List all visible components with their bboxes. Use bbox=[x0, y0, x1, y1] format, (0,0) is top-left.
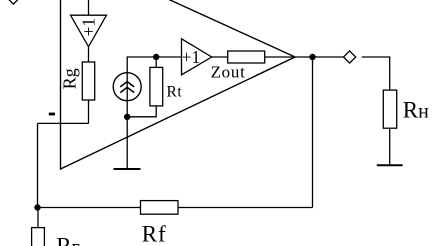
wire (current source bottom) bbox=[126, 101, 128, 117]
wire (RH bottom to ground) bbox=[389, 128, 391, 165]
ground G1 bbox=[114, 168, 141, 170]
resistor Rr (source resistor, cut off at bottom) bbox=[32, 228, 45, 246]
wire (U2 output to Rg top) bbox=[88, 47, 90, 62]
resistor Rf bbox=[141, 201, 179, 215]
wire (feedback vertical from node C) bbox=[312, 57, 314, 208]
wire (buffer U2 input, from top edge) bbox=[88, 0, 90, 15]
wire (left feedback bus down) bbox=[37, 123, 39, 207]
resistor Rt bbox=[150, 67, 163, 106]
node A (top of Rt) bbox=[153, 54, 159, 60]
op-amp U2 (+1 buffer, pointing down) bbox=[71, 15, 107, 47]
resistor Rg bbox=[82, 62, 94, 100]
op-amp U3 (+1 buffer, pointing right) bbox=[182, 39, 212, 75]
wire (to RH) bbox=[362, 57, 390, 90]
resistor RH bbox=[383, 90, 396, 128]
wire (U3 output to Zout) bbox=[212, 56, 228, 58]
node C (output node) bbox=[309, 54, 315, 60]
svg-text:+1: +1 bbox=[78, 18, 98, 37]
wire (node A to Rt top) bbox=[155, 57, 157, 67]
svg-text:Rг: Rг bbox=[56, 234, 80, 246]
terminal T1 (input diamond, top-left, cut off) bbox=[8, 0, 19, 4]
resistor Zout bbox=[228, 51, 265, 63]
wire (Rt bottom to node B) bbox=[127, 106, 156, 117]
wire (node B to ground) bbox=[126, 117, 128, 169]
svg-text:Rg: Rg bbox=[60, 68, 80, 89]
wire (node D down to Rr) bbox=[37, 208, 39, 228]
current source I1 (circle with double chevron) bbox=[113, 73, 141, 101]
node D (feedback / source junction) bbox=[34, 204, 40, 210]
node B (bottom junction) bbox=[124, 114, 130, 120]
svg-text:Zout: Zout bbox=[211, 62, 246, 81]
wire (Zout to apex and output node) bbox=[265, 56, 344, 58]
label minus (inverting input) bbox=[49, 113, 55, 116]
wire (Rf left to node D) bbox=[38, 207, 141, 209]
wire (feedback bottom right to Rf) bbox=[178, 207, 313, 209]
wire (current source top to buffer U3 input) bbox=[127, 57, 181, 73]
svg-text:Rt: Rt bbox=[167, 83, 183, 100]
svg-text:Rf: Rf bbox=[142, 222, 167, 246]
svg-text:+1: +1 bbox=[182, 47, 201, 67]
wire (inverting input horizontal) bbox=[38, 122, 89, 124]
ground G2 bbox=[377, 164, 403, 166]
wire (Rg bottom down) bbox=[88, 100, 90, 123]
terminal T2 (output diamond) bbox=[344, 51, 356, 63]
svg-text:Rн: Rн bbox=[403, 98, 429, 123]
op-amp U1 (large triangle outline, macromodel body) bbox=[61, 0, 296, 169]
